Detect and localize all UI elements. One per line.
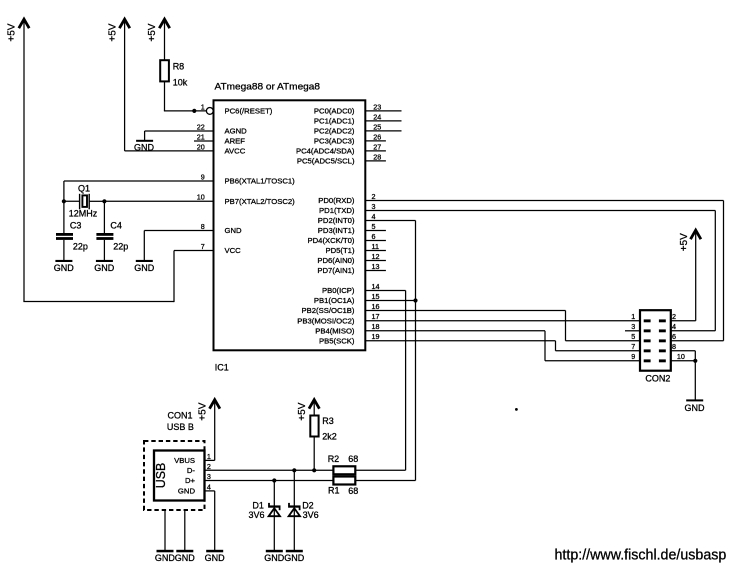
node CON2 ground junction [693, 359, 697, 363]
pin labels right side [296, 107, 355, 346]
wire R2 to PB0 vertical [355, 469, 405, 471]
svg-text:4: 4 [372, 212, 376, 221]
connector CON2 box [640, 310, 671, 371]
svg-text:25: 25 [373, 122, 381, 131]
svg-text:R1: R1 [328, 485, 340, 495]
ground symbol under pin 8 [134, 260, 155, 273]
svg-text:3: 3 [631, 322, 635, 331]
svg-text:6: 6 [672, 332, 676, 341]
node XTAL1 junction [62, 199, 66, 203]
pin 6 stub [365, 240, 386, 242]
svg-text:5: 5 [372, 222, 376, 231]
svg-text:PB2(SS/OC1B): PB2(SS/OC1B) [302, 306, 355, 315]
svg-text:USB B: USB B [167, 422, 194, 432]
wire R8 to RESET pin 1 [164, 81, 207, 111]
svg-text:PD4(XCK/T0): PD4(XCK/T0) [308, 236, 355, 245]
wire CON2 pin 10 to GND [671, 361, 696, 400]
svg-text:22: 22 [197, 122, 205, 131]
CON2 pads row 3 [644, 339, 666, 342]
svg-text:PB6(XTAL1/TOSC1): PB6(XTAL1/TOSC1) [225, 177, 296, 186]
svg-text:PD6(AIN0): PD6(AIN0) [317, 256, 355, 265]
ground symbol shield left [155, 550, 176, 563]
pin numbers left side [197, 102, 205, 251]
svg-text:D1: D1 [252, 500, 264, 510]
wire CON1 pin 2 D- line [205, 469, 334, 471]
svg-text:68: 68 [348, 486, 358, 496]
crystal Q1 [64, 194, 105, 210]
svg-text:R8: R8 [173, 62, 185, 72]
wire pin 17 PB3 to CON2 pin 1 [365, 320, 640, 322]
wire CON1 pin 3 D+ line [205, 480, 334, 482]
svg-text:R3: R3 [322, 416, 334, 426]
CON1 pin numbers [207, 452, 211, 492]
IC U1 box ATmega [214, 100, 366, 350]
svg-text:68: 68 [348, 454, 358, 464]
CON2 pin 3 stub [625, 330, 640, 332]
power +5V arrow P6 (R3 pullup) [297, 400, 320, 421]
svg-text:PD2(INT0): PD2(INT0) [318, 216, 355, 225]
node D- at R3 junction [312, 468, 316, 472]
svg-text:2: 2 [207, 462, 211, 471]
svg-text:+5V: +5V [107, 23, 118, 41]
svg-text:7: 7 [631, 342, 635, 351]
svg-text:14: 14 [372, 282, 380, 291]
pin 27 stub [365, 150, 386, 152]
power +5V arrow P1 (far left) [7, 19, 30, 301]
power +5V arrow P2 (to AVCC) [107, 19, 130, 151]
node XTAL2 junction [102, 199, 106, 203]
pin 8 GND wire [144, 231, 213, 261]
power +5V arrow P3 (to R8) [147, 19, 170, 60]
svg-text:16: 16 [372, 302, 380, 311]
power +5V arrow P5 (VBUS) [197, 400, 220, 461]
wire pin 18 PB4 to CON2 pin 9 [365, 331, 640, 361]
ground symbol under D2 [284, 550, 305, 563]
svg-text:+5V: +5V [147, 23, 158, 41]
svg-text:18: 18 [372, 322, 380, 331]
CON2 pads row 4 [644, 349, 666, 352]
wire pin 19 PB5 to CON2 pin 7 [365, 341, 640, 351]
svg-text:2: 2 [372, 192, 376, 201]
svg-text:PD7(AIN1): PD7(AIN1) [317, 266, 355, 275]
svg-text:D-: D- [187, 466, 196, 475]
svg-text:15: 15 [372, 292, 380, 301]
svg-text:PB5(SCK): PB5(SCK) [319, 337, 355, 346]
CON2 pads row 5 [644, 359, 666, 362]
diode D2 zener [288, 470, 300, 550]
ground symbol under D1 [264, 550, 285, 563]
svg-text:VBUS: VBUS [174, 456, 195, 465]
svg-text:PC5(ADC5/SCL): PC5(ADC5/SCL) [297, 157, 355, 166]
svg-text:4: 4 [207, 482, 211, 491]
pin 9 wire PB6 XTAL1 [64, 181, 214, 201]
svg-text:17: 17 [372, 312, 380, 321]
svg-text:PD1(TXD): PD1(TXD) [319, 206, 355, 215]
svg-text:GND: GND [225, 226, 243, 235]
svg-text:9: 9 [631, 352, 635, 361]
svg-text:R2: R2 [328, 454, 340, 464]
svg-text:26: 26 [373, 132, 381, 141]
svg-text:6: 6 [372, 232, 376, 241]
wire CON1 pin 1 VBUS [205, 459, 215, 461]
svg-text:3: 3 [207, 472, 211, 481]
wire AVCC to pin 20 [125, 150, 214, 152]
pin 1 inverting bubble PC6(/RESET) [206, 108, 213, 115]
svg-text:9: 9 [201, 172, 205, 181]
CON2 pin numbers right [672, 312, 685, 361]
svg-text:1: 1 [207, 452, 211, 461]
svg-text:C3: C3 [70, 220, 82, 230]
svg-text:Q1: Q1 [78, 183, 90, 193]
svg-text:2: 2 [672, 312, 676, 321]
svg-text:21: 21 [197, 132, 205, 141]
svg-text:24: 24 [373, 112, 381, 121]
svg-text:USB: USB [153, 463, 168, 489]
svg-text:4: 4 [672, 322, 676, 331]
svg-text:GND: GND [264, 553, 285, 563]
pin 10 wire PB7 XTAL2 [104, 200, 213, 202]
wire CON1 pin 4 to GND [205, 491, 215, 550]
CON1 pin labels [174, 456, 195, 496]
svg-text:GND: GND [178, 487, 196, 496]
ground symbol shield right [175, 550, 196, 563]
pin 12 stub [365, 260, 386, 262]
wire shield left to GND [164, 510, 166, 550]
wire pin 4 PD2 down to D+ net [365, 221, 415, 481]
resistor R2 [333, 466, 355, 474]
svg-text:3: 3 [372, 202, 376, 211]
diode D1 zener [268, 481, 280, 551]
svg-text:GND: GND [685, 403, 706, 413]
svg-text:+5V: +5V [297, 402, 308, 420]
pin labels left side [225, 107, 296, 256]
svg-text:GND: GND [205, 553, 226, 563]
svg-text:PC4(ADC4/SDA): PC4(ADC4/SDA) [296, 147, 355, 156]
svg-text:CON2: CON2 [645, 373, 670, 383]
wire pin 2 PD0 to CON2 pin 6 [365, 201, 723, 341]
svg-text:10k: 10k [173, 78, 188, 88]
svg-text:7: 7 [201, 242, 205, 251]
pin 11 stub [365, 250, 386, 252]
connector CON1 USB body box [154, 451, 205, 501]
ground symbol near AGND [134, 140, 155, 153]
pin 21 AREF stub [194, 140, 214, 142]
svg-text:ATmega88 or ATmega8: ATmega88 or ATmega8 [215, 82, 321, 93]
svg-text:8: 8 [201, 222, 205, 231]
svg-text:28: 28 [373, 152, 381, 161]
svg-text:20: 20 [197, 142, 205, 151]
svg-text:12MHz: 12MHz [69, 209, 98, 219]
node PB1/PD2 junction [413, 298, 417, 302]
svg-text:10: 10 [197, 193, 205, 202]
svg-text:CON1: CON1 [168, 411, 193, 421]
svg-text:GND: GND [284, 553, 305, 563]
svg-text:http://www.fischl.de/usbasp: http://www.fischl.de/usbasp [555, 546, 727, 563]
wire pin 3 PD1 to CON2 pin 4 [365, 211, 715, 331]
pin numbers right side [372, 102, 382, 341]
wire R3 to D- [313, 437, 315, 471]
pin 24 stub [365, 120, 401, 122]
svg-text:PB7(XTAL2/TOSC2): PB7(XTAL2/TOSC2) [225, 197, 296, 206]
pin 23 stub [365, 110, 401, 112]
wire pin 14 PB0 down to D- net [365, 291, 405, 471]
svg-text:10: 10 [677, 352, 685, 361]
ground symbol CON1 pin 4 [205, 550, 226, 563]
svg-text:27: 27 [373, 142, 381, 151]
wire pin 16 PB2 to CON2 pin 5 [365, 311, 640, 341]
resistor R3 [310, 416, 318, 437]
wire pin 15 PB1 [365, 300, 415, 302]
svg-text:AVCC: AVCC [225, 147, 246, 156]
capacitor C4 [96, 201, 113, 260]
connector CON1 shield dashed box [144, 441, 205, 510]
wire CON2 pin 8 to GND net [671, 351, 696, 361]
svg-text:5: 5 [631, 332, 635, 341]
ground symbol under C3 [54, 260, 75, 273]
pin 28 stub [365, 160, 386, 162]
svg-text:13: 13 [372, 262, 380, 271]
svg-text:+5V: +5V [679, 233, 690, 251]
svg-text:2k2: 2k2 [322, 431, 337, 441]
svg-text:VCC: VCC [225, 246, 242, 255]
stray dot artifact [515, 408, 518, 411]
svg-text:GND: GND [134, 263, 155, 273]
svg-text:+5V: +5V [197, 402, 208, 420]
svg-text:PB4(MISO): PB4(MISO) [315, 327, 355, 336]
svg-text:IC1: IC1 [215, 363, 229, 373]
svg-text:GND: GND [134, 143, 155, 153]
node D+ at D1 junction [272, 478, 276, 482]
svg-text:AGND: AGND [225, 127, 248, 136]
resistor R8 [160, 60, 169, 81]
svg-text:PC1(ADC1): PC1(ADC1) [314, 117, 355, 126]
svg-text:PD3(INT1): PD3(INT1) [318, 226, 355, 235]
svg-text:GND: GND [94, 263, 115, 273]
svg-text:GND: GND [54, 263, 75, 273]
CON2 pads row 2 [644, 329, 666, 332]
node RESET junction [192, 109, 196, 113]
svg-text:PC6(/RESET): PC6(/RESET) [225, 107, 273, 116]
svg-text:D2: D2 [302, 500, 314, 510]
resistor R1 [333, 477, 355, 485]
svg-text:12: 12 [372, 252, 380, 261]
svg-text:AREF: AREF [225, 137, 246, 146]
svg-text:PD5(T1): PD5(T1) [325, 246, 354, 255]
svg-text:1: 1 [201, 102, 205, 111]
svg-text:19: 19 [372, 332, 380, 341]
wire CON2 pin 2 to +5V [671, 320, 696, 322]
wire VCC net: far-left arrow down, right, up to pin 7 [23, 251, 213, 303]
svg-text:GND: GND [155, 553, 176, 563]
wire shield right to GND [184, 510, 186, 550]
node D- at D2 junction [292, 468, 296, 472]
pin 22 AGND wire to GND [145, 131, 214, 140]
svg-text:22p: 22p [113, 242, 128, 252]
svg-text:8: 8 [672, 342, 676, 351]
svg-text:PC3(ADC3): PC3(ADC3) [314, 137, 355, 146]
wire R1 to PD2/PB1 vertical [355, 480, 415, 482]
svg-text:+5V: +5V [7, 23, 18, 41]
svg-text:C4: C4 [110, 220, 122, 230]
svg-text:PB1(OC1A): PB1(OC1A) [314, 296, 355, 305]
svg-text:PC0(ADC0): PC0(ADC0) [314, 107, 355, 116]
pin 26 stub [365, 140, 386, 142]
svg-text:3V6: 3V6 [249, 510, 265, 520]
pin 13 stub [365, 270, 386, 272]
pin 5 stub [365, 230, 386, 232]
svg-text:D+: D+ [185, 476, 196, 485]
pin 25 stub [365, 130, 401, 132]
CON2 pads row 1 [644, 319, 666, 322]
power +5V arrow P4 (CON2 pin 2) [679, 230, 701, 321]
ground symbol under C4 [94, 260, 115, 273]
CON2 pin numbers left [631, 312, 635, 361]
svg-text:PB0(ICP): PB0(ICP) [322, 286, 355, 295]
svg-text:PC2(ADC2): PC2(ADC2) [314, 127, 355, 136]
svg-text:3V6: 3V6 [303, 510, 319, 520]
svg-text:PD0(RXD): PD0(RXD) [318, 196, 355, 205]
ground symbol under CON2 [685, 399, 706, 412]
svg-text:GND: GND [175, 553, 196, 563]
svg-text:1: 1 [631, 312, 635, 321]
svg-text:23: 23 [373, 102, 381, 111]
svg-text:PB3(MOSI/OC2): PB3(MOSI/OC2) [297, 317, 355, 326]
svg-text:22p: 22p [73, 242, 88, 252]
capacitor C3 [56, 201, 73, 260]
svg-text:11: 11 [372, 242, 379, 251]
